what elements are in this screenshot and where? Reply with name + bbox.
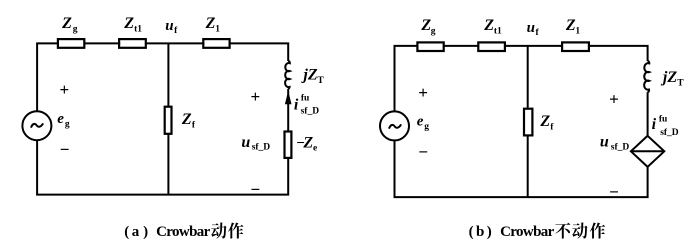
svg-text:): ) — [487, 224, 492, 240]
svg-text:+: + — [251, 87, 261, 106]
wire -Z_e to bottom corner, bottom rail, source bottom — [37, 141, 288, 195]
svg-text:T: T — [317, 76, 324, 86]
label i_sf_D^fu (a) — [294, 93, 319, 116]
svg-text:(: ( — [124, 224, 129, 240]
label e_g (a) — [57, 111, 70, 130]
svg-text:i: i — [294, 96, 299, 113]
resistor -Z_e (vertical box) — [285, 132, 292, 158]
label Z_1 (a) — [205, 15, 221, 34]
svg-text:f: f — [192, 120, 196, 130]
wire: source top to top-left corner to Z_g — [37, 43, 59, 111]
current arrow head i_sf_D (a) — [285, 91, 292, 105]
svg-text:a: a — [132, 224, 140, 240]
svg-text:i: i — [652, 116, 657, 133]
svg-text:jZ: jZ — [300, 67, 317, 84]
label u_f (a) — [165, 18, 178, 36]
resistor Z_t1 (box) — [119, 39, 146, 48]
svg-text:+: + — [609, 89, 619, 108]
label u_sf_D (b) — [600, 133, 630, 152]
wire Z_f to bottom rail — [167, 134, 169, 195]
label i_sf_D^fu (b) — [652, 114, 679, 138]
svg-text:Z: Z — [483, 17, 494, 34]
label jZ_T (b) — [660, 69, 684, 89]
svg-text:sf_D: sf_D — [611, 142, 630, 152]
caption (b) CJK dong — [572, 222, 587, 238]
wire node u_f down to Z_f — [167, 43, 169, 106]
svg-text:1: 1 — [575, 27, 580, 37]
controlled source diamond (b) — [631, 136, 664, 167]
wire Z_f to bottom rail (b) — [527, 135, 529, 197]
svg-text:1: 1 — [215, 24, 220, 34]
svg-text:u: u — [527, 20, 535, 36]
svg-text:(: ( — [469, 224, 474, 240]
label Z_f (b) — [539, 113, 554, 132]
wire Z_1 to top-right corner down to inductor — [230, 43, 289, 61]
svg-text:u: u — [600, 133, 609, 150]
inductor jZ_T coil (b) — [644, 61, 649, 92]
label e_g (b) — [417, 114, 430, 133]
svg-text:g: g — [431, 26, 436, 36]
wire Z_g to Z_t1 (b) — [444, 45, 479, 47]
diamond horizontal bar (b) — [631, 150, 664, 152]
svg-text:t1: t1 — [134, 24, 142, 34]
resistor Z_1 (b) — [562, 42, 589, 51]
caption (b) CJK bu — [555, 223, 570, 239]
resistor Z_g (b) — [417, 42, 443, 51]
AC source e_g circle (b) — [380, 111, 409, 140]
svg-text:e: e — [313, 144, 317, 154]
svg-text:u: u — [165, 18, 173, 34]
caption (a) CJK zuo — [228, 222, 243, 238]
resistor Z_1 (box) — [203, 39, 229, 48]
svg-text:Z: Z — [420, 17, 431, 34]
svg-text:f: f — [536, 28, 540, 38]
svg-text:−: − — [609, 183, 619, 202]
svg-text:−: − — [60, 140, 70, 159]
caption (a) CJK dong — [211, 222, 226, 238]
wire Z_g to Z_t1 — [84, 42, 120, 44]
svg-text:−: − — [250, 180, 260, 199]
caption (b) CJK zuo — [590, 222, 605, 238]
svg-text:g: g — [424, 122, 429, 132]
svg-text:Crowbar: Crowbar — [156, 224, 211, 240]
svg-text:Z: Z — [539, 113, 550, 130]
svg-text:fu: fu — [659, 114, 668, 124]
svg-text:sf_D: sf_D — [252, 142, 271, 152]
tilde inside source (a) — [31, 124, 42, 127]
svg-text:Z: Z — [565, 17, 576, 34]
svg-text:e: e — [417, 114, 424, 130]
wire Z_t1 to Z_1 through node u_f — [146, 42, 205, 44]
svg-text:jZ: jZ — [660, 69, 677, 86]
svg-text:sf_D: sf_D — [660, 128, 679, 138]
svg-text:Z: Z — [181, 111, 192, 128]
tilde inside source (b) — [389, 125, 400, 128]
svg-text:T: T — [677, 79, 684, 89]
wire: source top to top-left corner to Z_g (b) — [395, 46, 419, 111]
svg-text:t1: t1 — [494, 26, 502, 36]
svg-text:Z: Z — [123, 15, 134, 32]
svg-text:e: e — [57, 111, 64, 127]
label Z_g (b) — [420, 17, 435, 36]
resistor Z_g (box) — [58, 39, 84, 48]
label Z_g (a) — [61, 15, 78, 34]
svg-text:+: + — [418, 83, 428, 102]
svg-text:): ) — [143, 224, 148, 240]
svg-text:g: g — [65, 119, 70, 129]
resistor Z_f (vertical box) — [165, 107, 172, 134]
svg-text:fu: fu — [301, 93, 310, 103]
svg-text:−: − — [418, 142, 428, 161]
wire Z_t1 to Z_1 through node u_f (b) — [505, 45, 563, 47]
svg-text:Z: Z — [302, 134, 313, 151]
AC source e_g circle (a) — [22, 111, 51, 140]
label Z_f (a) — [181, 111, 196, 130]
resistor Z_t1 (b) — [478, 42, 505, 51]
svg-text:u: u — [241, 134, 250, 151]
wire node u_f down to Z_f (b) — [527, 46, 529, 108]
svg-text:sf_D: sf_D — [301, 107, 320, 117]
label Z_t1 (b) — [483, 17, 502, 36]
wire inductor to diamond source (b) — [647, 92, 649, 136]
label jZ_T (a) — [300, 67, 324, 87]
resistor Z_f (vertical box) (b) — [524, 109, 532, 136]
svg-text:Z: Z — [205, 15, 216, 32]
svg-text:+: + — [60, 80, 70, 99]
wire Z_1 to top-right corner down to inductor (b) — [588, 46, 648, 61]
wire diamond to bottom corner, bottom rail, source bottom (b) — [395, 141, 648, 197]
label Z_1 (b) — [565, 17, 581, 36]
svg-text:Z: Z — [61, 15, 72, 32]
inductor jZ_T coil — [285, 61, 290, 89]
svg-text:b: b — [476, 224, 484, 240]
label u_f (b) — [527, 20, 540, 38]
svg-text:f: f — [550, 122, 554, 132]
svg-text:g: g — [73, 25, 78, 35]
label u_sf_D (a) — [241, 134, 270, 153]
svg-text:Crowbar: Crowbar — [500, 224, 555, 240]
svg-text:f: f — [174, 26, 178, 36]
label Z_t1 (a) — [123, 15, 142, 34]
label -Z_e (a) — [296, 134, 317, 153]
wire inductor to -Z_e box (with current arrow) — [287, 89, 289, 133]
